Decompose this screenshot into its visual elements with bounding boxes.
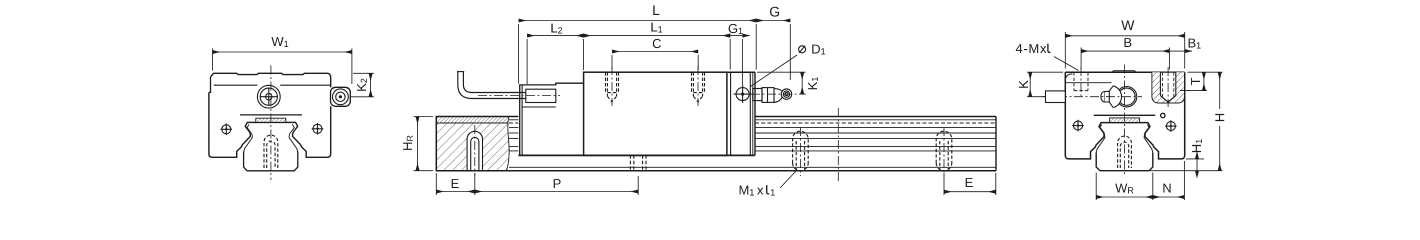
dimension E right bbox=[944, 173, 996, 195]
face screw left bbox=[1074, 121, 1083, 130]
lbl 4-Mxl bbox=[1016, 44, 1047, 53]
dimension K1 bbox=[757, 72, 806, 94]
lbl N bbox=[1163, 184, 1170, 193]
rail bolt hole hidden bbox=[1118, 136, 1132, 168]
rail sides below block bbox=[1096, 153, 1153, 171]
lbl B1 bbox=[1189, 39, 1201, 49]
block body outline bbox=[1065, 72, 1184, 159]
dimension WR bbox=[1096, 173, 1153, 201]
rail top edge bbox=[509, 116, 518, 118]
rail cutout top edge bbox=[247, 121, 295, 123]
nipple axis centerline bbox=[1042, 96, 1142, 98]
lbl K bbox=[1019, 80, 1028, 87]
dimension P bbox=[475, 176, 638, 195]
lbl E right bbox=[966, 178, 973, 187]
grease nipple stem bbox=[753, 89, 762, 101]
tapped hole centerline left bbox=[1080, 67, 1082, 96]
lbl W1 bbox=[271, 37, 288, 47]
dimension B1 bbox=[1169, 50, 1192, 52]
carriage bottom thick edge bbox=[518, 154, 755, 156]
right face screw bbox=[313, 124, 322, 133]
rail hidden edge dashed bbox=[509, 122, 518, 124]
nipple boss circles bbox=[333, 89, 349, 105]
tapped hole 1 centerline bbox=[611, 66, 613, 106]
lbl C bbox=[653, 39, 661, 48]
end plate rounded corner bbox=[1065, 74, 1072, 81]
dimension W1 bbox=[213, 49, 352, 85]
tapped hole 1 top bbox=[606, 72, 619, 102]
dimension G1 bbox=[723, 36, 750, 85]
dimension HR bbox=[414, 117, 434, 171]
dimension G bbox=[756, 21, 790, 81]
rail section bolt hole (white) bbox=[467, 131, 482, 170]
face screw right bbox=[1166, 122, 1175, 131]
end plate bottom edge bbox=[1065, 82, 1111, 84]
dimension C bbox=[612, 52, 698, 71]
vertical centerline bbox=[1124, 65, 1126, 176]
grease nipple boss (front) bbox=[331, 87, 351, 106]
lbl G bbox=[770, 7, 779, 17]
rail section bolt centerline bbox=[474, 125, 476, 176]
carriage body outline bbox=[209, 92, 331, 157]
tapped hole 2 top bbox=[692, 72, 705, 102]
rail right end bbox=[995, 117, 997, 171]
block top edge bbox=[1065, 71, 1184, 73]
rail bolt hole 4 hidden bbox=[936, 131, 952, 171]
center port circles bbox=[1116, 87, 1136, 107]
nipple axis centerline bbox=[735, 93, 806, 95]
lbl W bbox=[1121, 20, 1134, 30]
rail side lines right bbox=[509, 120, 996, 168]
seal hatch strip bbox=[256, 118, 286, 122]
lbl T bbox=[1191, 78, 1200, 85]
lbl WR bbox=[1115, 184, 1133, 194]
rail bottom edge bbox=[436, 170, 996, 172]
dimension H1 bbox=[1186, 153, 1204, 178]
rail inner contour left bbox=[1096, 125, 1105, 153]
end cap bottom edge bbox=[214, 84, 258, 86]
left fitting box bbox=[526, 89, 556, 102]
label D1 with leader bbox=[751, 55, 798, 87]
tapped hole left hidden bbox=[1074, 72, 1088, 90]
dimension H bbox=[1150, 72, 1223, 171]
dimension L bbox=[519, 21, 757, 84]
rail bolt hole 3 hidden bbox=[793, 131, 809, 171]
lbl E left bbox=[452, 179, 459, 188]
dimension L2 bbox=[527, 36, 583, 84]
end seal right bbox=[754, 72, 756, 155]
vertical centerline bbox=[270, 66, 272, 181]
tapped hole 2 centerline bbox=[697, 66, 699, 106]
dimension W bbox=[1065, 32, 1184, 69]
lbl L1 bbox=[651, 23, 662, 33]
lbl D1 bbox=[812, 45, 825, 55]
lbl L2 bbox=[551, 24, 562, 34]
rail top edge (section view) bbox=[1094, 114, 1156, 116]
carriage body side view bbox=[584, 72, 727, 155]
top center raised tab bbox=[1112, 71, 1136, 72]
center screw cross bbox=[260, 96, 277, 98]
small hole bbox=[1161, 113, 1165, 117]
rail inner contour right bbox=[289, 124, 298, 152]
thread dashed lines bbox=[1161, 72, 1163, 97]
grease nipple side profile bbox=[1113, 86, 1121, 108]
dimension K2 bbox=[351, 73, 375, 97]
rail inner contour left bbox=[244, 124, 253, 152]
rail section outline bbox=[436, 117, 509, 171]
dimension B bbox=[1081, 48, 1169, 70]
lbl H1 bbox=[1192, 139, 1202, 152]
dimension L1 bbox=[584, 36, 731, 70]
tapped hole in section (white) bbox=[1160, 72, 1175, 102]
rail inner contour right bbox=[1144, 125, 1153, 153]
lbl P bbox=[554, 179, 561, 188]
lbl L bbox=[653, 5, 659, 15]
label M1xl1 with leader bbox=[780, 171, 796, 188]
rail section bolt hole inner bbox=[471, 137, 479, 170]
rail bolt hole 2 hidden under block bbox=[630, 155, 646, 170]
dimension T bbox=[1180, 72, 1207, 90]
end cap top edge with notches bbox=[211, 73, 331, 87]
section hatch pocket top right bbox=[1152, 72, 1185, 103]
side grease port tab bbox=[1046, 91, 1066, 103]
dimension N bbox=[1153, 161, 1185, 200]
hatch pocket border bbox=[1152, 72, 1185, 103]
lbl B bbox=[1125, 38, 1132, 47]
rail section fine hatch strip bbox=[436, 117, 509, 123]
center screw circles bbox=[260, 88, 277, 105]
pipe axis centerline bbox=[478, 95, 560, 97]
bent grease pipe bbox=[458, 72, 526, 99]
lbl H bbox=[1215, 114, 1224, 121]
rail bolt hole 3 centerline bbox=[799, 127, 801, 176]
dimension K bbox=[1027, 72, 1063, 97]
lbl M1xl1 bbox=[740, 186, 775, 196]
rail bolt hole hidden lines bbox=[264, 135, 278, 168]
end cap right bbox=[730, 72, 732, 155]
rail top edge (front) bbox=[240, 114, 302, 116]
lbl HR bbox=[403, 136, 413, 150]
rail sides below carriage bbox=[244, 152, 298, 171]
rail section break curve bbox=[507, 117, 510, 171]
tapped hole centerline right bbox=[1167, 67, 1169, 107]
grease nipple ball bbox=[774, 89, 782, 103]
grease nipple flange bbox=[762, 88, 774, 103]
rail break centerline bbox=[837, 108, 839, 184]
center screw boss circle bbox=[257, 85, 280, 108]
lbl K2 bbox=[357, 79, 367, 91]
rail section strip line bbox=[436, 122, 508, 124]
rail bolt hole 4 centerline bbox=[943, 127, 945, 176]
seal hatch strip bbox=[1110, 118, 1140, 123]
rail section hatched block bbox=[436, 117, 509, 171]
label 4-Mxl with leader bbox=[1054, 57, 1079, 71]
end cap left edge bbox=[209, 77, 211, 93]
lbl G1 bbox=[729, 24, 743, 34]
left face screw bbox=[222, 125, 231, 134]
left attachment housing bbox=[520, 83, 584, 155]
grease port circle on end seal bbox=[736, 88, 749, 101]
dimension E left bbox=[436, 173, 475, 195]
lbl K1 bbox=[808, 77, 818, 89]
